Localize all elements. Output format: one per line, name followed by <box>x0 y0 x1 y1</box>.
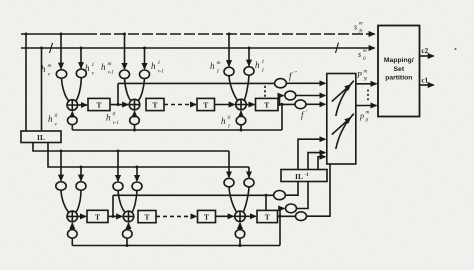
delay box T1 <box>88 98 110 110</box>
adder A3 <box>236 99 247 110</box>
adder A2 <box>129 99 140 110</box>
svg-text:T: T <box>204 213 209 222</box>
delay box T3b <box>198 210 216 222</box>
svg-text:T: T <box>96 101 101 110</box>
tap wire into multiplier h_1^m <box>228 34 230 66</box>
wire ellipsis vertical dots to T4 top <box>264 86 266 98</box>
funnel wires into bottom adder B2 <box>118 191 125 213</box>
node dots bottom bus 2 <box>80 166 83 169</box>
interleaver IL box <box>21 131 61 143</box>
wire IL-inverse out 2 to commutator <box>308 153 325 170</box>
wire output line f'' <box>118 82 275 84</box>
wire riser through bottom h0 circle 3 into adder B3 <box>239 238 241 245</box>
svg-text:v-1: v-1 <box>158 70 164 75</box>
svg-text:h: h <box>41 64 46 74</box>
wire T4b direct output line <box>278 215 296 217</box>
wire vertical from line2 down to interleaver IL <box>41 48 43 131</box>
wire commutator to mapping (P line) <box>356 83 377 85</box>
multiplier circle h_v-1^1 <box>140 70 150 79</box>
tap wire into bottom multiplier 6 <box>248 167 250 177</box>
multiplier circle h_1^0 <box>236 116 246 125</box>
multiplier circle h_v^m <box>56 70 66 79</box>
svg-text:-1: -1 <box>305 173 310 178</box>
wire output c1 <box>420 84 434 86</box>
wire feedback line bottom encoder <box>72 245 280 247</box>
wire f'' to commutator <box>286 82 325 84</box>
wire output c2 <box>420 55 434 57</box>
delay box T2b <box>138 211 156 223</box>
multiplier circle h_1^m <box>224 67 234 76</box>
svg-text:IL: IL <box>295 172 303 181</box>
wire IL output 2 down and right (bottom bus 2) <box>48 143 249 168</box>
wire IL-inverse out 1 to commutator <box>298 139 325 169</box>
wire feedback riser from T4 output down <box>281 104 283 130</box>
multiplier circle h_v^1 <box>76 69 86 78</box>
svg-text:m: m <box>364 70 368 75</box>
svg-text:IL: IL <box>37 133 45 142</box>
svg-text:T: T <box>203 101 208 110</box>
funnel wires into bottom adder B3 <box>229 187 237 212</box>
adder B2 <box>123 211 134 222</box>
svg-text:p: p <box>359 112 364 121</box>
multiplier circle bottom h0-2 <box>123 230 133 239</box>
svg-text:c1: c1 <box>422 77 429 85</box>
svg-text:Mapping/: Mapping/ <box>384 57 414 64</box>
tap wire into multiplier h_v-1^1 <box>144 48 146 69</box>
svg-text:N: N <box>358 30 363 35</box>
svg-text:h: h <box>101 62 106 72</box>
svg-text:T: T <box>265 213 270 222</box>
tap wire into bottom multiplier 3 <box>117 151 119 181</box>
wire bus line 2 (input, second) <box>21 47 375 49</box>
svg-text:h: h <box>210 61 215 71</box>
tap wire into multiplier h_1^1 <box>248 48 250 66</box>
wire adder B3 to T4b <box>245 215 256 217</box>
wire ellipsis dashes T2 to T3 <box>164 104 196 106</box>
bus-width slash on line 2 (right, before mapping) <box>336 43 339 54</box>
svg-text:0: 0 <box>113 112 116 118</box>
svg-text:h: h <box>48 114 53 124</box>
svg-text:h: h <box>221 116 226 126</box>
svg-text:P: P <box>356 71 362 80</box>
svg-text:m: m <box>108 61 112 67</box>
wire bottom output line 1 <box>113 194 274 196</box>
multiplier circle bottom output 3 <box>296 212 307 221</box>
wire adder A1 to T1 <box>78 104 87 106</box>
wire bottom output 2 up into IL-inverse <box>297 182 309 209</box>
svg-text:1: 1 <box>228 124 231 130</box>
svg-text:h: h <box>255 60 260 70</box>
svg-text:v-1: v-1 <box>113 121 119 126</box>
wire riser through bottom h0 circle 1 into adder B1 <box>71 238 73 245</box>
tap wire into multiplier h_v-1^m <box>124 34 126 69</box>
tap wire into multiplier h_v^1 <box>80 48 82 68</box>
deinterleaver IL-inverse box <box>281 170 327 182</box>
tap wire into multiplier h_v^m <box>60 34 62 69</box>
svg-text:h: h <box>85 63 90 73</box>
multiplier circle h_v-1^0 <box>130 116 140 125</box>
svg-text:1: 1 <box>158 60 161 66</box>
multiplier circle bottom tap 4 <box>132 182 142 191</box>
bus-width slash on line 2 (left) <box>50 43 53 53</box>
multiplier circle middle output <box>285 91 296 100</box>
wire adder A3 to T4 <box>246 104 254 106</box>
wire middle output into circle <box>280 95 284 97</box>
svg-text:h: h <box>106 113 111 123</box>
wire T1b to adder B2 <box>108 215 122 217</box>
wire IL output 1 down and right (bottom bus 1) <box>33 143 229 152</box>
svg-text:h: h <box>151 61 156 71</box>
svg-text:0: 0 <box>228 115 231 121</box>
svg-text:T: T <box>95 213 100 222</box>
node feedback junctions <box>133 129 136 132</box>
multiplier circle f' <box>295 100 306 109</box>
adder B1 <box>67 211 78 222</box>
adder A1 (circle with plus) <box>67 100 78 111</box>
wire feedback riser through h_v-1^0 into adder A2 <box>134 125 136 130</box>
node riser junction bottom x=113 <box>112 215 115 218</box>
wire riser through bottom h0 circle 2 into adder B2 <box>126 238 128 245</box>
wire T1 to adder A2 <box>110 104 128 106</box>
tap wire into bottom multiplier 4 <box>136 167 138 181</box>
wire feedback riser through h_v^0 into adder A1 <box>71 125 73 130</box>
multiplier circle bottom tap 3 <box>113 182 123 191</box>
multiplier circle bottom h0-1 <box>68 230 78 239</box>
svg-text:v-1: v-1 <box>108 71 114 76</box>
svg-text:s: s <box>354 23 357 32</box>
wire bottom middle output into circle <box>280 208 284 210</box>
tap wire into bottom multiplier 2 <box>80 167 82 181</box>
node junction dots on bus line 1 <box>25 33 231 36</box>
svg-text:1: 1 <box>262 68 265 74</box>
stray speck <box>455 48 457 50</box>
svg-text:T: T <box>144 213 149 222</box>
node feedback junction dots bottom <box>126 244 129 247</box>
multiplier circle bottom output 2 <box>286 204 297 213</box>
svg-text:c2: c2 <box>422 47 429 55</box>
wire vertical from line1 down to interleaver IL <box>25 34 27 131</box>
svg-text:1: 1 <box>92 62 95 68</box>
wire riser from T4 output up to middle output line <box>279 96 281 105</box>
wire ellipsis dashes T2b to T3b <box>156 215 196 217</box>
svg-text:m: m <box>366 111 370 116</box>
svg-text:1: 1 <box>262 59 265 65</box>
wire feedback riser bottom <box>279 216 281 245</box>
delay box T1b <box>87 210 108 222</box>
wire IL-inverse out 3 to commutator <box>318 157 325 170</box>
svg-text:0: 0 <box>55 113 58 119</box>
svg-text:partition: partition <box>385 75 412 82</box>
commutator / selector box <box>327 74 356 165</box>
multiplier circle bottom tap 1 <box>56 182 66 191</box>
multiplier circle bottom tap 5 <box>224 178 234 187</box>
svg-text:N: N <box>363 78 368 83</box>
svg-text:m: m <box>48 63 52 69</box>
commutator lower arm symbol <box>332 118 351 135</box>
wire riser from T4b output up to bottom middle output <box>279 209 281 217</box>
multiplier circle f'' <box>275 79 287 88</box>
adder B3 <box>235 211 246 222</box>
multiplier circle bottom h0-3 <box>235 230 245 239</box>
commutator upper arm symbol <box>332 85 351 102</box>
wire ellipsis dots between P and p0 <box>367 90 369 102</box>
wire ellipsis riser to T4b top <box>265 195 267 210</box>
svg-text:s: s <box>358 50 361 59</box>
node dot on bottom output line at ellipsis riser <box>265 194 268 197</box>
wire commutator to mapping (p0 line) <box>356 105 377 107</box>
delay box T2 <box>146 98 164 110</box>
svg-text:m: m <box>217 60 221 66</box>
node dots bottom bus 1 <box>60 150 63 153</box>
svg-text:m: m <box>359 22 363 27</box>
tap wire into bottom multiplier 1 <box>60 151 62 181</box>
wire T4 output line f' <box>278 103 295 105</box>
svg-text:1: 1 <box>217 69 220 75</box>
svg-text:Set: Set <box>394 66 405 73</box>
funnel wires from taps into adder A1 <box>62 78 70 101</box>
multiplier circle bottom output 1 <box>274 191 286 200</box>
svg-text:m: m <box>363 49 367 54</box>
wire riser for output f'' line <box>117 83 119 104</box>
tap wire into bottom multiplier 5 <box>228 151 230 177</box>
wire T3 to adder A3 <box>215 104 235 106</box>
funnel wires from taps into adder A2 <box>125 79 132 101</box>
wire T3b to adder B3 <box>216 215 234 217</box>
wire bottom output 3 up into commutator bottom <box>307 164 331 216</box>
node junction dots on bus line 2 <box>40 47 251 50</box>
wire bus line 1 (input s, top) <box>21 33 86 35</box>
delay box T4b <box>257 210 278 222</box>
node riser junction at x=118 <box>117 103 120 106</box>
wire feedback riser through h_1^0 into adder A3 <box>240 125 242 130</box>
delay box T4 <box>256 98 279 110</box>
multiplier circle h_v-1^m <box>120 70 130 79</box>
wire feedback line top encoder <box>72 129 282 131</box>
wire bottom output 1 up into IL-inverse <box>285 182 298 196</box>
delay box T3 <box>197 98 215 110</box>
mapping / set partition box <box>378 26 420 117</box>
multiplier circle bottom tap 2 <box>76 182 86 191</box>
wire f' to commutator <box>306 103 325 105</box>
multiplier circle h_1^1 <box>244 67 254 76</box>
funnel wires into bottom adder B1 <box>61 190 69 212</box>
multiplier circle h_v^0 <box>68 116 78 125</box>
wire adder B1 to T1b <box>78 215 86 217</box>
wire riser bottom output line 1 <box>112 195 114 216</box>
funnel wires from taps into adder A3 <box>229 76 238 101</box>
wire middle output to commutator <box>296 95 325 97</box>
svg-text:T: T <box>152 101 157 110</box>
svg-text:T: T <box>264 101 269 110</box>
multiplier circle bottom tap 6 <box>244 178 254 187</box>
